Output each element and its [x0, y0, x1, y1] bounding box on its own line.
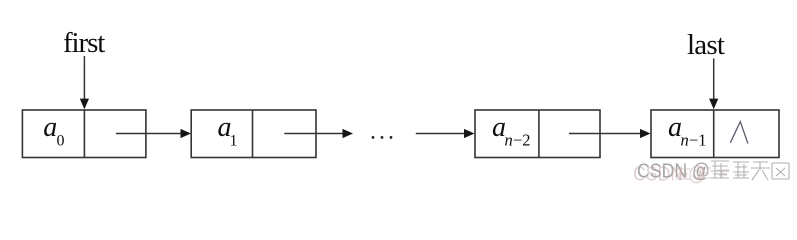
svg-text:0: 0 [57, 132, 65, 149]
svg-text:n: n [505, 130, 513, 149]
watermark pseudo CJK glyph 4 (box qu) [772, 163, 789, 179]
node box a0 [22, 110, 145, 158]
svg-text:1: 1 [230, 132, 238, 149]
ellipsis dots [372, 136, 393, 139]
wire arrow dots to node a(n-2) [416, 129, 475, 138]
node box a1 [191, 110, 316, 158]
arrow from last down to node a(n-1) [709, 59, 718, 110]
node box a(n-1) [651, 110, 779, 158]
svg-text:last: last [687, 29, 725, 61]
wire arrow node a1 toward dots [284, 129, 353, 138]
watermark CSDN (doubled faint text) [633, 160, 710, 186]
watermark red layer pseudo CJK strokes [676, 168, 729, 179]
svg-text:CSDN @: CSDN @ [633, 163, 706, 186]
arrow from first down to node a0 [80, 56, 89, 109]
svg-text:−2: −2 [513, 130, 531, 149]
svg-text:first: first [63, 27, 105, 59]
null marker (lambda caret) in last cell [730, 122, 748, 144]
wire arrow node a(n-2) to node a(n-1) [569, 129, 651, 138]
watermark pseudo CJK glyph 2 [733, 162, 749, 178]
node box a(n-2) [475, 110, 600, 158]
wire arrow node a0 to node a1 [116, 129, 191, 138]
svg-text:a: a [43, 112, 57, 143]
watermark pseudo CJK glyph 3 (tian with diagonals) [751, 162, 770, 180]
watermark pseudo CJK glyph 1 [711, 161, 729, 178]
svg-text:n: n [681, 130, 689, 149]
svg-text:−1: −1 [689, 130, 707, 149]
